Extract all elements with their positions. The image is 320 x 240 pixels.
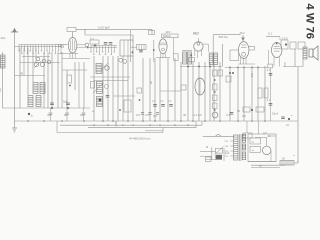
- svg-text:5µF: 5µF: [63, 100, 68, 104]
- svg-text:50: 50: [237, 109, 241, 113]
- svg-text:0,1: 0,1: [267, 99, 271, 102]
- svg-text:AF2: AF2: [240, 31, 246, 35]
- svg-text:25mA: 25mA: [272, 113, 279, 116]
- svg-text:IF=468/1000 kc/s: IF=468/1000 kc/s: [129, 136, 151, 140]
- svg-text:LW: LW: [0, 88, 2, 92]
- svg-text:0,5: 0,5: [136, 113, 140, 117]
- svg-text:0,05-5pF: 0,05-5pF: [98, 26, 110, 30]
- svg-text:AF3: AF3: [166, 30, 171, 34]
- svg-text:40: 40: [20, 72, 24, 76]
- svg-text:2A: 2A: [268, 135, 271, 138]
- svg-text:0,1: 0,1: [268, 32, 272, 36]
- svg-text:AE2: AE2: [193, 32, 199, 36]
- svg-text:60: 60: [149, 80, 153, 84]
- svg-text:0,1: 0,1: [226, 113, 230, 117]
- svg-text:W.B.Kw: W.B.Kw: [219, 35, 228, 39]
- svg-text:MWLW: MWLW: [163, 35, 171, 38]
- svg-text:0,1: 0,1: [267, 69, 271, 72]
- svg-text:0,1: 0,1: [168, 100, 172, 103]
- svg-text:AE1: AE1: [1, 37, 6, 40]
- svg-text:0,1: 0,1: [152, 100, 156, 103]
- svg-text:2,5: 2,5: [80, 113, 84, 117]
- svg-text:40: 40: [183, 113, 187, 117]
- svg-text:0,1-0,5: 0,1-0,5: [193, 113, 202, 117]
- svg-text:1M: 1M: [250, 72, 254, 77]
- svg-text:+: +: [291, 113, 293, 117]
- svg-text:0,1: 0,1: [90, 37, 94, 41]
- svg-text:0,1: 0,1: [153, 114, 157, 118]
- svg-text:2,5: 2,5: [145, 113, 149, 117]
- svg-text:10: 10: [64, 113, 68, 117]
- svg-text:4,5: 4,5: [47, 113, 51, 117]
- svg-text:M: M: [206, 145, 208, 149]
- svg-text:0,2: 0,2: [242, 114, 246, 118]
- svg-text:4 W 76: 4 W 76: [303, 4, 315, 39]
- svg-text:0,1: 0,1: [160, 100, 164, 103]
